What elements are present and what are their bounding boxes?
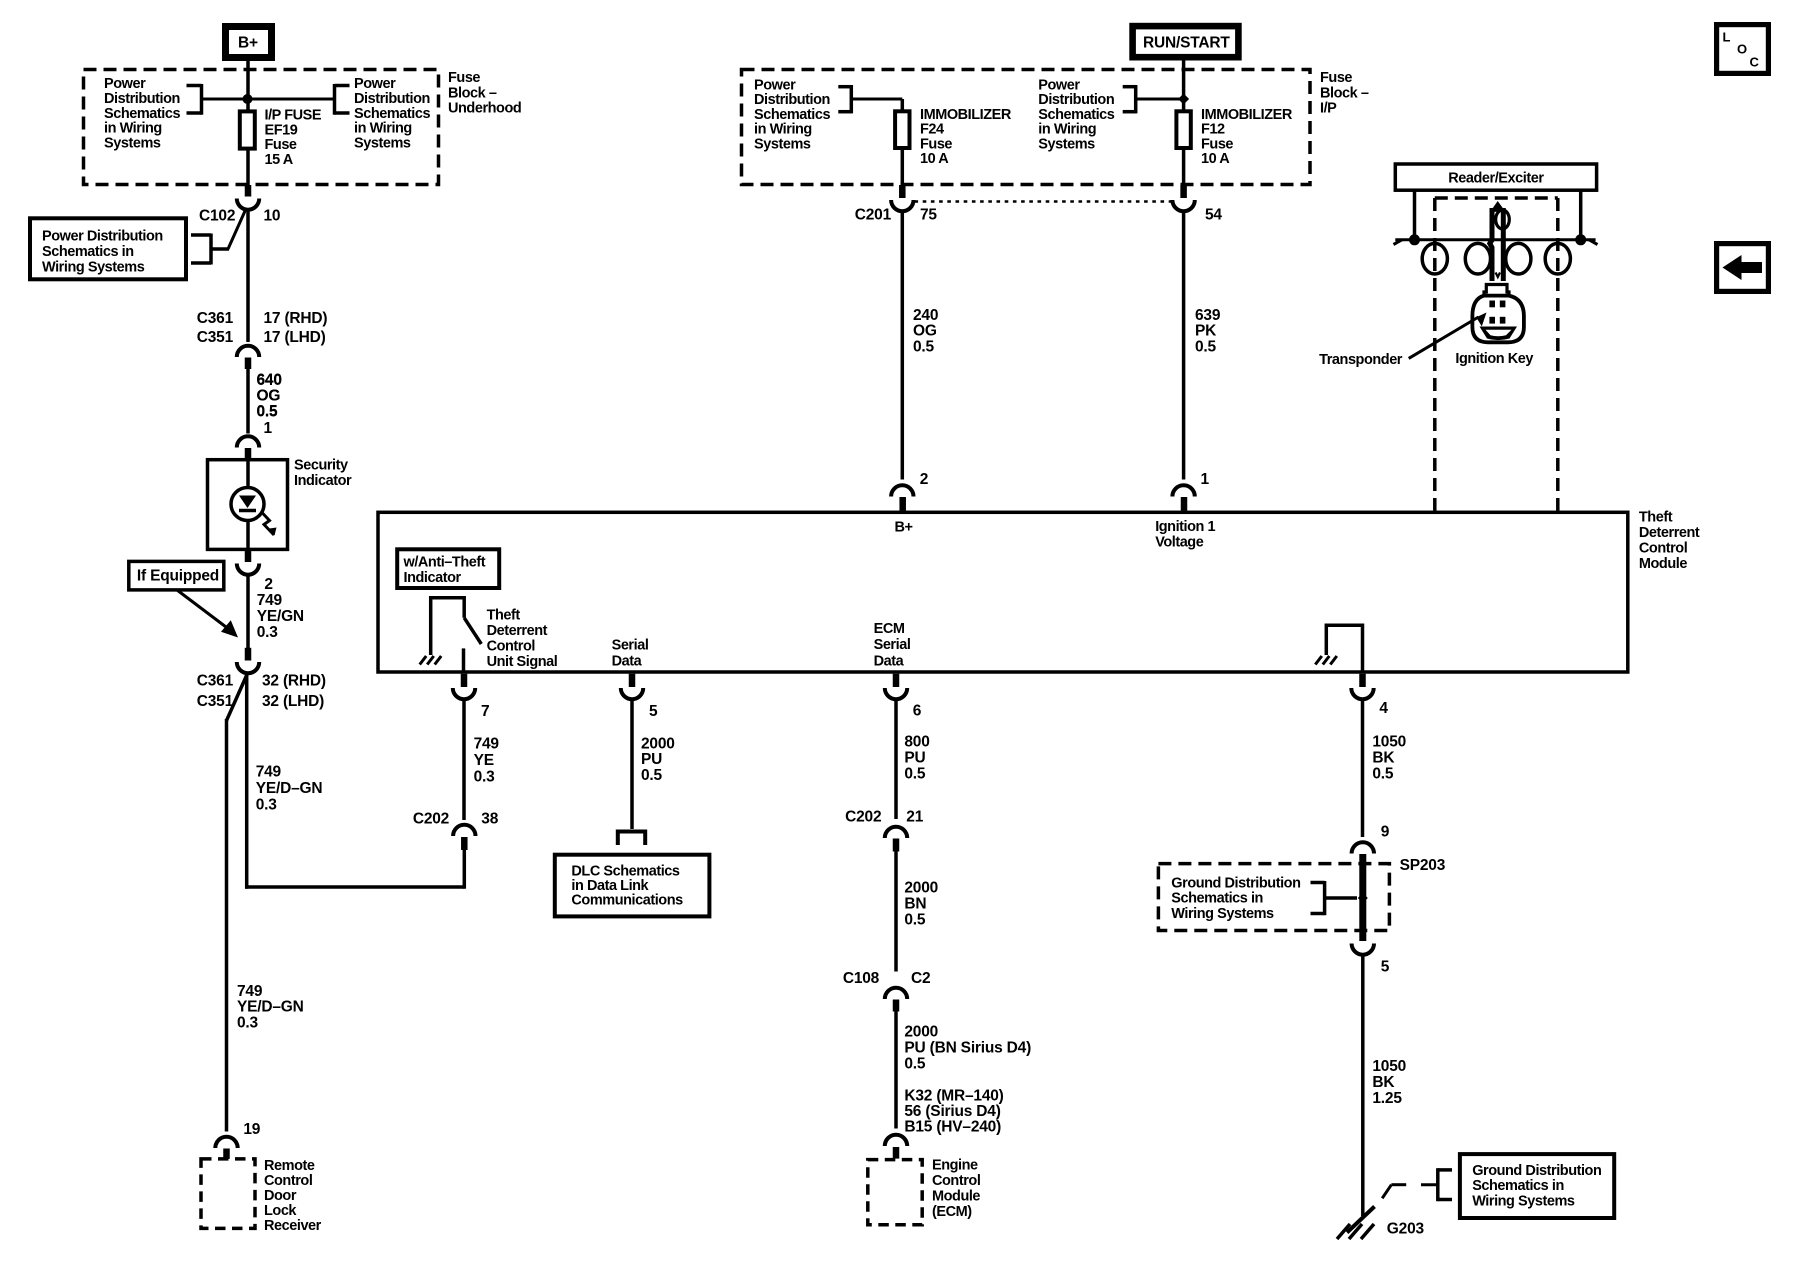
- svg-text:7: 7: [481, 703, 489, 720]
- svg-text:Systems: Systems: [104, 135, 161, 151]
- connector remote receiver: [215, 1137, 237, 1148]
- svg-text:800: 800: [904, 733, 929, 750]
- back arrow icon: [1717, 244, 1769, 292]
- svg-text:Distribution: Distribution: [754, 92, 830, 108]
- svg-text:749: 749: [237, 983, 263, 1000]
- svg-text:0.3: 0.3: [237, 1015, 259, 1032]
- svg-text:1: 1: [264, 420, 273, 437]
- svg-text:Fuse: Fuse: [1201, 136, 1233, 152]
- svg-text:749: 749: [257, 592, 283, 609]
- ground G203: [1347, 1207, 1375, 1233]
- wire reader right drop: [1579, 190, 1583, 240]
- svg-text:DLC Schematics: DLC Schematics: [571, 863, 680, 879]
- svg-text:BN: BN: [904, 896, 926, 913]
- svg-text:Power: Power: [754, 77, 796, 93]
- svg-text:EF19: EF19: [265, 122, 298, 138]
- svg-text:75: 75: [920, 207, 937, 224]
- svg-text:Fuse: Fuse: [1320, 70, 1352, 86]
- reader/exciter box: [1395, 164, 1596, 190]
- svg-text:RUN/START: RUN/START: [1143, 35, 1230, 52]
- svg-text:Theft: Theft: [487, 607, 521, 623]
- wire C202-21 to C108: [894, 852, 898, 972]
- svg-text:2000: 2000: [641, 735, 675, 752]
- exciter coil loops: [1422, 243, 1447, 274]
- svg-text:BK: BK: [1372, 750, 1395, 767]
- if equipped box: [129, 561, 224, 590]
- svg-text:If Equipped: If Equipped: [137, 568, 219, 585]
- connector ECM: [885, 1135, 907, 1146]
- svg-text:Schematics: Schematics: [1038, 107, 1114, 123]
- svg-text:1050: 1050: [1372, 733, 1406, 750]
- svg-text:Module: Module: [932, 1188, 980, 1204]
- connector module pin 7: [461, 674, 468, 687]
- LED security indicator: [231, 488, 264, 521]
- remote control door lock receiver dashed box: [201, 1159, 255, 1229]
- svg-text:Control: Control: [487, 638, 535, 654]
- bracket ground distribution ref: [1436, 1168, 1440, 1201]
- connector security indicator top: [237, 436, 259, 447]
- wire through security indicator: [246, 460, 250, 550]
- switch theft deterrent indicator: [431, 596, 465, 600]
- svg-text:B+: B+: [238, 35, 258, 52]
- svg-text:Schematics in: Schematics in: [1472, 1178, 1564, 1194]
- w/anti-theft indicator box: [397, 549, 499, 588]
- svg-text:2000: 2000: [904, 1024, 938, 1041]
- svg-text:749: 749: [474, 735, 500, 752]
- svg-text:Lock: Lock: [264, 1203, 297, 1219]
- wire to security indicator: [246, 369, 250, 434]
- svg-text:PU: PU: [641, 751, 662, 768]
- svg-text:OG: OG: [913, 323, 937, 340]
- wire security to C361 lower: [246, 576, 250, 649]
- wire fuse F24 to C201: [901, 148, 905, 186]
- node coil right: [1575, 234, 1586, 245]
- wire to remote receiver: [225, 719, 229, 1132]
- bracket F12: [1123, 85, 1136, 89]
- wire RUN/START to fuse F12: [1182, 57, 1186, 111]
- svg-text:640: 640: [257, 372, 282, 389]
- svg-text:C351: C351: [197, 693, 234, 710]
- security indicator box: [208, 460, 288, 550]
- svg-text:0.3: 0.3: [257, 624, 279, 641]
- svg-text:PU: PU: [904, 750, 925, 767]
- connector module pin 6: [893, 674, 900, 687]
- svg-text:Indicator: Indicator: [294, 473, 352, 489]
- svg-text:Wiring Systems: Wiring Systems: [1472, 1193, 1575, 1209]
- svg-text:Schematics in: Schematics in: [42, 244, 134, 260]
- svg-text:O: O: [1737, 42, 1747, 57]
- connector C102: [245, 185, 252, 197]
- ignition key neck: [1484, 285, 1509, 296]
- svg-text:10 A: 10 A: [1201, 151, 1230, 167]
- svg-text:6: 6: [913, 703, 922, 720]
- svg-text:Serial: Serial: [612, 637, 649, 653]
- connector C201 dotted span: [915, 200, 1174, 203]
- splice SP203 dashed box: [1158, 864, 1389, 931]
- svg-text:0.5: 0.5: [904, 1056, 926, 1073]
- bracket right power distribution: [333, 84, 337, 115]
- svg-text:Ground Distribution: Ground Distribution: [1472, 1163, 1601, 1179]
- power label B+: [226, 27, 272, 58]
- svg-text:YE: YE: [474, 752, 494, 769]
- svg-text:9: 9: [1381, 823, 1390, 840]
- wire pin 6 to C202-21: [894, 701, 898, 820]
- svg-text:SP203: SP203: [1400, 857, 1446, 874]
- svg-text:ECM: ECM: [874, 621, 905, 637]
- svg-text:IMMOBILIZER: IMMOBILIZER: [920, 107, 1012, 123]
- svg-text:0.3: 0.3: [474, 768, 496, 785]
- svg-text:Systems: Systems: [354, 135, 411, 151]
- svg-text:Voltage: Voltage: [1155, 534, 1204, 550]
- svg-text:OG: OG: [257, 387, 281, 404]
- svg-text:C108: C108: [843, 970, 880, 987]
- svg-text:Remote: Remote: [264, 1158, 315, 1174]
- ignition key head smile: [1480, 327, 1518, 341]
- svg-text:4: 4: [1379, 700, 1388, 717]
- svg-text:Deterrent: Deterrent: [487, 623, 548, 639]
- svg-text:15 A: 15 A: [265, 152, 294, 168]
- svg-text:Power: Power: [1038, 77, 1080, 93]
- svg-text:C351: C351: [197, 329, 234, 346]
- connector C108-C2: [885, 988, 907, 999]
- fuse block underhood dashed box: [84, 70, 439, 185]
- svg-text:Distribution: Distribution: [104, 91, 180, 107]
- svg-text:Block –: Block –: [448, 85, 497, 101]
- svg-text:Distribution: Distribution: [1038, 92, 1114, 108]
- svg-text:w/Anti–Theft: w/Anti–Theft: [403, 555, 486, 571]
- svg-text:in Wiring: in Wiring: [1038, 122, 1096, 138]
- connector C361/C351 lower: [245, 648, 252, 661]
- arrow transponder: [1409, 317, 1479, 358]
- svg-text:BK: BK: [1372, 1074, 1395, 1091]
- svg-text:B+: B+: [895, 520, 913, 536]
- svg-text:Security: Security: [294, 458, 348, 474]
- svg-text:19: 19: [243, 1121, 260, 1138]
- fuse block I/P dashed box: [742, 70, 1311, 185]
- svg-text:Serial: Serial: [874, 637, 911, 653]
- svg-text:2: 2: [264, 576, 272, 593]
- svg-text:IMMOBILIZER: IMMOBILIZER: [1201, 107, 1293, 123]
- svg-text:PK: PK: [1195, 323, 1217, 340]
- svg-text:Power: Power: [104, 76, 146, 92]
- svg-text:Underhood: Underhood: [448, 101, 521, 117]
- svg-text:32 (LHD): 32 (LHD): [262, 693, 324, 710]
- svg-text:YE/D–GN: YE/D–GN: [237, 999, 304, 1016]
- svg-text:PU (BN Sirius D4): PU (BN Sirius D4): [904, 1040, 1031, 1057]
- svg-text:K32 (MR–140): K32 (MR–140): [904, 1088, 1003, 1105]
- svg-text:17 (RHD): 17 (RHD): [264, 310, 328, 327]
- svg-text:Schematics: Schematics: [754, 107, 830, 123]
- wire 240 OG to module: [901, 213, 905, 480]
- svg-text:240: 240: [913, 307, 938, 324]
- bracket F24: [838, 85, 851, 89]
- ignition key blade: [1490, 201, 1505, 212]
- svg-text:1: 1: [1201, 471, 1210, 488]
- svg-text:5: 5: [649, 703, 658, 720]
- svg-text:YE/GN: YE/GN: [257, 608, 304, 625]
- svg-text:L: L: [1723, 30, 1731, 45]
- wire fuse F12 down: [1182, 148, 1186, 186]
- svg-text:Power: Power: [354, 76, 396, 92]
- svg-text:Schematics: Schematics: [354, 106, 430, 122]
- svg-text:Communications: Communications: [571, 893, 683, 909]
- ignition key head contacts: [1489, 301, 1495, 308]
- connector module pin 4: [1359, 674, 1366, 687]
- svg-text:in Wiring: in Wiring: [754, 122, 812, 138]
- svg-text:in Wiring: in Wiring: [104, 121, 162, 137]
- svg-text:Fuse: Fuse: [448, 70, 480, 86]
- wire branch to C202-38: [245, 675, 249, 889]
- svg-text:2000: 2000: [904, 880, 938, 897]
- engine control module dashed box: [868, 1160, 922, 1225]
- bracket ref box: [191, 233, 211, 237]
- svg-text:Ignition Key: Ignition Key: [1455, 351, 1533, 367]
- wire B+ to fuse EF19: [246, 61, 250, 111]
- svg-text:C202: C202: [413, 810, 449, 827]
- svg-text:C: C: [1750, 55, 1760, 70]
- svg-text:in Wiring: in Wiring: [354, 121, 412, 137]
- svg-text:F24: F24: [920, 122, 944, 138]
- svg-text:C201: C201: [855, 207, 892, 224]
- svg-text:Control: Control: [932, 1173, 980, 1189]
- connector module pin 1: [1172, 485, 1194, 496]
- svg-text:C361: C361: [197, 673, 234, 690]
- svg-text:Ground Distribution: Ground Distribution: [1171, 875, 1300, 891]
- fuse F24 symbol: [895, 111, 909, 148]
- svg-text:B15 (HV–240): B15 (HV–240): [904, 1119, 1001, 1136]
- svg-text:C102: C102: [199, 208, 235, 225]
- wire exciter coil line: [1395, 238, 1595, 241]
- bracket left power distribution: [187, 84, 202, 88]
- loc icon: [1717, 25, 1769, 74]
- svg-text:Distribution: Distribution: [354, 91, 430, 107]
- wire jumper horizontal: [245, 885, 465, 889]
- svg-text:C2: C2: [911, 970, 930, 987]
- connector SP203 in: [1352, 842, 1374, 853]
- svg-text:in Data Link: in Data Link: [571, 878, 649, 894]
- wire C108 to ECM: [894, 1012, 898, 1129]
- svg-text:Indicator: Indicator: [404, 570, 462, 586]
- wire bracket to fuse node: [202, 98, 335, 101]
- svg-text:639: 639: [1195, 307, 1221, 324]
- svg-text:C361: C361: [197, 310, 234, 327]
- svg-text:1050: 1050: [1372, 1058, 1406, 1075]
- arrow if equipped: [177, 590, 228, 629]
- svg-text:32 (RHD): 32 (RHD): [262, 673, 326, 690]
- svg-text:Door: Door: [264, 1188, 297, 1204]
- connector C201 left half: [899, 185, 906, 198]
- connector module pin 5: [629, 674, 636, 687]
- connector module pin 2: [891, 485, 913, 496]
- svg-text:Transponder: Transponder: [1319, 352, 1403, 368]
- svg-text:Wiring Systems: Wiring Systems: [1171, 906, 1274, 922]
- svg-text:5: 5: [1381, 958, 1390, 975]
- node fuse EF19 top: [243, 94, 253, 104]
- ref box power distribution schematics: [30, 218, 186, 279]
- svg-text:10 A: 10 A: [920, 151, 949, 167]
- svg-text:0.5: 0.5: [1372, 766, 1394, 783]
- svg-text:Power Distribution: Power Distribution: [42, 229, 163, 245]
- svg-text:Module: Module: [1639, 556, 1687, 572]
- ground anti-theft indicator: [420, 656, 427, 665]
- bracket SP203: [1311, 881, 1325, 885]
- wire SP203 to G203: [1361, 956, 1365, 1217]
- svg-text:Reader/Exciter: Reader/Exciter: [1448, 171, 1544, 187]
- svg-text:C202: C202: [845, 809, 881, 826]
- svg-text:Wiring Systems: Wiring Systems: [42, 260, 145, 276]
- svg-text:0.5: 0.5: [904, 766, 926, 783]
- svg-text:0.3: 0.3: [256, 797, 278, 814]
- fuse EF19 symbol: [240, 111, 255, 148]
- svg-text:YE/D–GN: YE/D–GN: [256, 780, 323, 797]
- svg-text:F12: F12: [1201, 122, 1225, 138]
- wire 639 PK to module: [1182, 213, 1186, 480]
- svg-text:G203: G203: [1387, 1220, 1425, 1237]
- svg-text:Unit Signal: Unit Signal: [487, 654, 558, 670]
- svg-text:I/P FUSE: I/P FUSE: [265, 108, 322, 124]
- node coil left: [1409, 234, 1420, 245]
- svg-text:56 (Sirius D4): 56 (Sirius D4): [904, 1103, 1000, 1120]
- svg-text:(ECM): (ECM): [932, 1204, 972, 1220]
- connector below security indicator: [245, 549, 252, 562]
- connector C201 right half: [1180, 185, 1187, 198]
- svg-text:Schematics in: Schematics in: [1171, 891, 1263, 907]
- svg-text:Control: Control: [264, 1173, 312, 1189]
- svg-text:Fuse: Fuse: [920, 136, 952, 152]
- connector C202-38: [453, 825, 475, 836]
- wire C202-38 to jumper: [463, 850, 467, 889]
- svg-text:1.25: 1.25: [1372, 1090, 1402, 1107]
- svg-text:2: 2: [920, 471, 928, 488]
- connector SP203 out: [1352, 944, 1374, 955]
- wire reader left drop: [1413, 190, 1417, 240]
- offpage terminal DLC: [618, 832, 645, 846]
- dashed zone ignition key: [1435, 196, 1558, 200]
- svg-text:Systems: Systems: [754, 137, 811, 153]
- wire branch diagonal to receiver: [227, 675, 248, 721]
- ref box DLC schematics: [555, 855, 710, 917]
- svg-text:749: 749: [256, 764, 282, 781]
- ignition key head: [1472, 296, 1524, 343]
- svg-text:0.5: 0.5: [641, 767, 663, 784]
- svg-text:0.5: 0.5: [913, 339, 935, 356]
- svg-text:0.5: 0.5: [257, 403, 279, 420]
- svg-text:Data: Data: [612, 654, 643, 670]
- ignition key bow loop: [1496, 210, 1510, 229]
- svg-text:I/P: I/P: [1320, 101, 1337, 117]
- wire bracket to fuse F24: [851, 98, 902, 101]
- wire pin 5 to DLC: [630, 701, 634, 830]
- svg-text:Receiver: Receiver: [264, 1218, 322, 1234]
- ref box ground distribution schematics: [1460, 1154, 1614, 1218]
- node fuse F12 top: [1178, 94, 1189, 105]
- svg-text:Data: Data: [874, 653, 905, 669]
- wire C102 to C361: [246, 209, 250, 343]
- svg-text:17 (LHD): 17 (LHD): [264, 329, 326, 346]
- wire pin 4 to SP203: [1361, 701, 1365, 838]
- svg-text:0.5: 0.5: [904, 912, 926, 929]
- fuse F12 symbol: [1176, 111, 1190, 148]
- wire bracket to fuse F12: [1136, 98, 1184, 101]
- svg-text:38: 38: [481, 810, 498, 827]
- connector C202-21: [885, 827, 907, 838]
- leader G203 to ref box: [1382, 1185, 1391, 1199]
- svg-text:Deterrent: Deterrent: [1639, 525, 1700, 541]
- connector C361/C351 upper: [237, 346, 259, 357]
- leader C102 to ref box: [228, 211, 245, 249]
- svg-text:Control: Control: [1639, 540, 1687, 556]
- wire pin 7 to C202-38: [462, 701, 466, 821]
- svg-text:Engine: Engine: [932, 1158, 978, 1174]
- svg-text:Ignition 1: Ignition 1: [1155, 519, 1215, 535]
- svg-text:Fuse: Fuse: [265, 137, 297, 153]
- wire fuse EF19 to C102: [246, 149, 250, 186]
- svg-text:Schematics: Schematics: [104, 106, 180, 122]
- svg-text:Systems: Systems: [1038, 137, 1095, 153]
- node SP203: [1358, 893, 1368, 903]
- svg-text:0.5: 0.5: [1195, 339, 1217, 356]
- svg-text:10: 10: [264, 208, 281, 225]
- svg-text:Block –: Block –: [1320, 85, 1369, 101]
- ground module internal right: [1326, 624, 1362, 628]
- svg-text:Theft: Theft: [1639, 510, 1673, 526]
- power label RUN/START: [1133, 26, 1239, 57]
- theft deterrent control module box: [378, 512, 1628, 672]
- svg-text:54: 54: [1205, 207, 1222, 224]
- splice SP203 bar: [1359, 854, 1366, 941]
- svg-text:21: 21: [906, 809, 923, 826]
